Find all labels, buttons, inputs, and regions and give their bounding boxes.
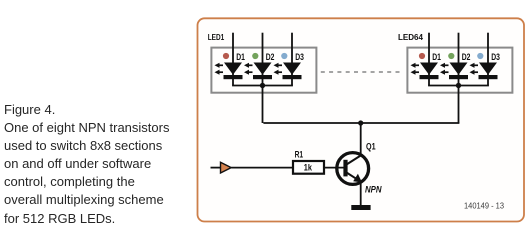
resistor R1 bbox=[293, 161, 324, 174]
svg-text:R1: R1 bbox=[295, 150, 304, 160]
svg-text:1k: 1k bbox=[304, 163, 313, 174]
collector wire bbox=[360, 123, 362, 156]
transistor Q1 bbox=[337, 153, 369, 185]
svg-text:Q1: Q1 bbox=[366, 141, 376, 151]
node: rail junction bbox=[358, 120, 363, 125]
module LED1 bbox=[211, 33, 316, 123]
input wire bbox=[211, 167, 222, 169]
svg-text:NPN: NPN bbox=[365, 184, 382, 194]
emitter wire bbox=[360, 182, 362, 206]
input signal arrow bbox=[221, 162, 232, 173]
schematic frame bbox=[198, 18, 525, 221]
wire arrow to R1 bbox=[231, 167, 292, 169]
svg-text:LED1: LED1 bbox=[208, 32, 225, 42]
dashed bus continuation bbox=[321, 71, 402, 73]
ground bbox=[351, 205, 370, 210]
module LED64 bbox=[407, 33, 512, 123]
figure caption bbox=[4, 101, 169, 228]
svg-text:140149 - 13: 140149 - 13 bbox=[464, 201, 505, 210]
collector rail wire bbox=[263, 122, 459, 124]
wire R1 to base bbox=[325, 167, 347, 169]
svg-text:LED64: LED64 bbox=[398, 32, 423, 42]
